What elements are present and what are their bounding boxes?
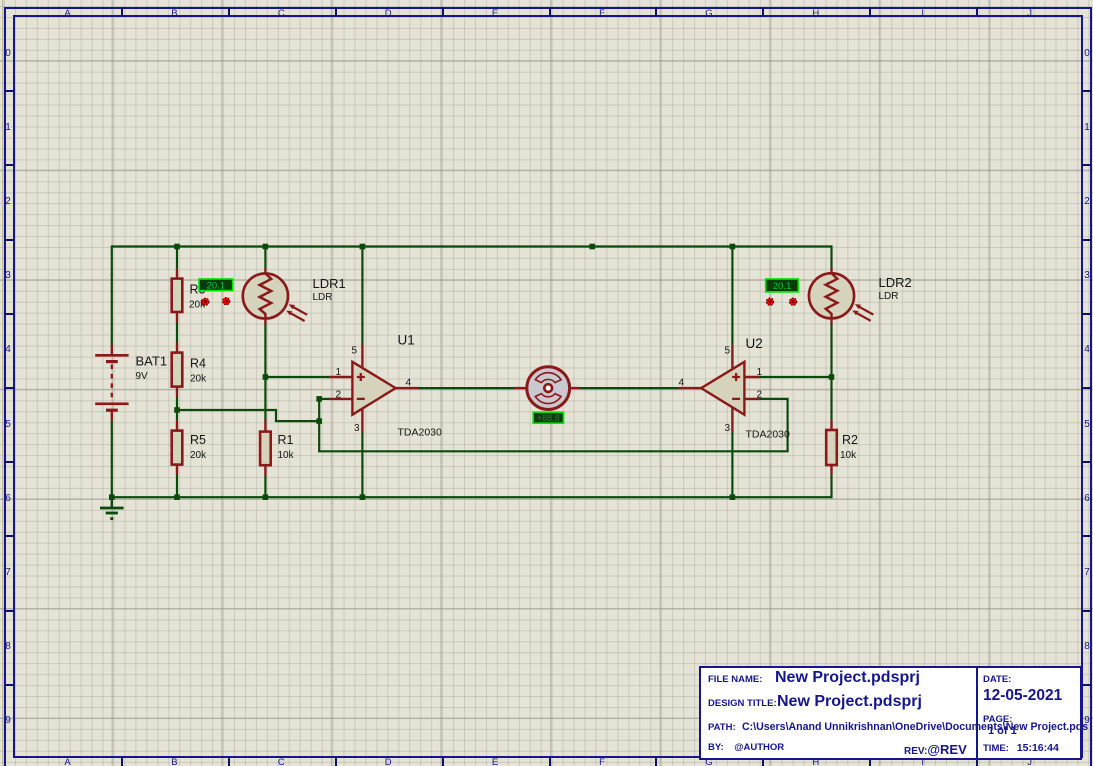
svg-text:TDA2030: TDA2030	[398, 427, 443, 439]
svg-text:LDR: LDR	[313, 292, 333, 303]
ruler letter I top	[913, 8, 933, 19]
svg-text:LDR2: LDR2	[879, 275, 912, 290]
ruler letter E bottom	[485, 757, 505, 766]
ruler number 8 left	[3, 641, 13, 652]
ruler letter D bottom	[378, 757, 398, 766]
wire top power rail	[112, 245, 832, 247]
label U2 ref	[746, 336, 763, 351]
ruler tick bottom 8	[869, 756, 871, 766]
ruler tick top 3	[335, 7, 337, 16]
ground symbol	[100, 497, 124, 518]
label R4 value	[190, 374, 207, 385]
label R1 ref	[278, 433, 294, 447]
ruler number 6 right	[1082, 493, 1092, 504]
svg-text:10k: 10k	[278, 450, 295, 461]
node feedback left	[316, 418, 322, 424]
title block divider	[976, 668, 978, 758]
svg-text:LDR1: LDR1	[313, 276, 346, 291]
wire feedback bus	[318, 450, 789, 452]
op-amp U2 pin5 stub	[731, 345, 733, 368]
ruler tick top 2	[228, 7, 230, 16]
label U1 pin5	[351, 346, 357, 357]
ruler number 0 left	[3, 48, 13, 59]
label U2 pin3	[724, 423, 730, 434]
ruler letter H bottom	[806, 757, 826, 766]
wire battery bottom	[111, 420, 113, 498]
resistor R5 pins	[176, 420, 178, 475]
svg-text:3: 3	[724, 423, 730, 434]
ruler tick top 8	[869, 7, 871, 16]
file name row	[708, 674, 762, 685]
ruler tick left 2	[4, 164, 14, 166]
photoresistor LDR2	[809, 273, 873, 321]
label LDR2 ref	[879, 275, 912, 290]
frame inner top line	[13, 15, 1083, 17]
label U2 pin2	[757, 390, 763, 401]
op-amp U2 pin2 stub	[742, 398, 760, 400]
button LDR2 decrease	[766, 298, 773, 305]
label LDR1 ref	[313, 276, 346, 291]
ruler number 8 right	[1082, 641, 1092, 652]
label U1 pin1	[335, 367, 341, 378]
svg-text:TDA2030: TDA2030	[746, 429, 791, 441]
wire motor to U2 output	[579, 387, 679, 389]
ruler number 7 right	[1082, 567, 1092, 578]
ruler tick top 6	[655, 7, 657, 16]
button LDR1 increase	[223, 298, 230, 305]
wire R5 bottom	[176, 474, 178, 498]
node ground U1 pin3	[360, 494, 366, 500]
op-amp U2 pin1 stub	[742, 376, 760, 378]
resistor R2 pins	[830, 420, 832, 475]
svg-text:R1: R1	[278, 433, 294, 447]
date cell	[983, 674, 1011, 685]
node ground U2 pin3	[730, 494, 736, 500]
ruler tick right 5	[1081, 387, 1091, 389]
ruler tick bottom 5	[549, 756, 551, 766]
label U2 part	[746, 429, 791, 441]
ruler number 4 right	[1082, 344, 1092, 355]
wire U2 pin1 net	[760, 376, 832, 378]
ruler letter I bottom	[913, 757, 933, 766]
wire LDR2 to R2	[830, 324, 832, 420]
op-amp U1 pin2 stub	[329, 398, 353, 400]
node R4 R5 divider	[174, 407, 180, 413]
drawing frame	[0, 0, 1093, 1]
ruler letter F bottom	[592, 757, 612, 766]
wire U1 pin2 net	[319, 398, 329, 400]
op-amp U2 pin4 stub	[679, 387, 710, 389]
ruler tick right 8	[1081, 610, 1091, 612]
wire output U1 to motor	[418, 387, 514, 389]
motor pins	[514, 387, 580, 389]
node top rail U2 pin5	[730, 244, 736, 250]
svg-text:5: 5	[724, 346, 730, 357]
label R5 value	[190, 450, 207, 461]
ruler letter J top	[1020, 8, 1040, 19]
ruler number 1 left	[3, 122, 13, 133]
ruler tick left 7	[4, 535, 14, 537]
frame inner bottom line	[13, 756, 1083, 758]
ruler letter F top	[592, 8, 612, 19]
ruler tick bottom 6	[655, 756, 657, 766]
design title row	[708, 698, 777, 709]
photoresistor LDR1	[243, 273, 307, 321]
frame inner right line	[1081, 15, 1083, 758]
label BAT1 ref	[136, 354, 168, 369]
label R1 value	[278, 450, 295, 461]
ruler number 9 left	[3, 715, 13, 726]
ruler tick right 7	[1081, 535, 1091, 537]
ruler number 9 right	[1082, 715, 1092, 726]
LDR1 pins	[264, 268, 266, 324]
svg-text:4: 4	[406, 378, 412, 389]
ruler tick left 5	[4, 387, 14, 389]
ruler tick bottom 7	[762, 756, 764, 766]
label U1 pin2	[335, 390, 341, 401]
resistor R2	[826, 430, 837, 465]
ruler number 0 right	[1082, 48, 1092, 59]
node top rail mid	[589, 244, 595, 250]
ruler tick right 1	[1081, 90, 1091, 92]
ruler tick left 8	[4, 610, 14, 612]
wire U2 pin2 net	[760, 399, 788, 451]
wire U2 pin3 drop	[731, 432, 733, 498]
ruler tick top 4	[442, 7, 444, 16]
svg-text:+88.8: +88.8	[537, 413, 560, 423]
wire R2 bottom riser	[830, 475, 832, 499]
ruler letter C bottom	[271, 757, 291, 766]
wire feedback vertical left	[318, 398, 320, 452]
motor M1	[527, 367, 570, 410]
label U1 pin3	[354, 423, 360, 434]
resistor R4	[172, 353, 183, 387]
svg-text:U1: U1	[398, 333, 415, 348]
ruler tick top 5	[549, 7, 551, 16]
ruler tick right 4	[1081, 313, 1091, 315]
title block	[699, 666, 1082, 760]
label BAT1 value	[136, 371, 149, 382]
ruler tick top 7	[762, 7, 764, 16]
ruler letter J bottom	[1020, 757, 1040, 766]
label R2 ref	[842, 433, 858, 447]
svg-text:R5: R5	[190, 433, 206, 447]
ruler tick bottom 2	[228, 756, 230, 766]
label R5 ref	[190, 433, 206, 447]
rev	[904, 742, 967, 757]
op-amp U2 pin3 stub	[731, 408, 733, 432]
wire R3-R4 link	[176, 322, 178, 343]
page cell	[983, 714, 1012, 725]
display LDR1 lux readout	[199, 279, 233, 291]
ruler tick right 3	[1081, 239, 1091, 241]
svg-text:2: 2	[335, 390, 341, 401]
ruler tick top 9	[976, 7, 978, 16]
label LDR2 value	[879, 291, 899, 302]
op-amp U1	[352, 362, 395, 415]
op-amp U2	[701, 362, 744, 415]
node top rail U1 pin5	[360, 244, 366, 250]
svg-text:20k: 20k	[190, 450, 207, 461]
svg-text:4: 4	[678, 378, 684, 389]
ruler tick right 2	[1081, 164, 1091, 166]
ruler letter E top	[485, 8, 505, 19]
wire LDR1 top	[264, 245, 266, 268]
ruler letter C top	[271, 8, 291, 19]
resistor R4 pins	[176, 342, 178, 397]
node U1 pin2 join	[316, 396, 322, 402]
label R2 value	[840, 450, 857, 461]
resistor R3	[172, 279, 183, 312]
ruler tick bottom 1	[121, 756, 123, 766]
ruler number 2 left	[3, 196, 13, 207]
label U1 pin4	[406, 378, 412, 389]
svg-text:20k: 20k	[190, 374, 207, 385]
label U1 part	[398, 427, 443, 439]
LDR2 pins	[830, 268, 832, 324]
ruler tick left 9	[4, 684, 14, 686]
resistor R3 pins	[176, 269, 178, 323]
frame outer right line	[1090, 7, 1092, 766]
wire divider to U1 pin2	[177, 410, 319, 421]
resistor R5	[172, 431, 183, 465]
wire R1 bottom	[264, 475, 266, 498]
op-amp U1 pin5 stub	[361, 345, 363, 368]
op-amp U1 pin3 stub	[361, 408, 363, 432]
svg-text:BAT1: BAT1	[136, 354, 168, 369]
ruler tick left 1	[4, 90, 14, 92]
button LDR1 decrease	[202, 298, 209, 305]
wire LDR1 to R1	[264, 324, 266, 420]
node ground battery	[109, 494, 115, 500]
ruler letter A top	[58, 8, 78, 19]
svg-text:5: 5	[351, 346, 357, 357]
ruler number 7 left	[3, 567, 13, 578]
svg-text:2: 2	[757, 390, 763, 401]
wire ground rail	[112, 496, 832, 498]
ruler letter D top	[378, 8, 398, 19]
svg-text:10k: 10k	[840, 450, 857, 461]
ruler tick bottom 9	[976, 756, 978, 766]
node top rail R3	[174, 244, 180, 250]
wire R3 column top	[176, 245, 178, 268]
ruler letter A bottom	[58, 757, 78, 766]
ruler letter B top	[164, 8, 184, 19]
svg-text:20.1: 20.1	[207, 280, 226, 291]
svg-text:20.1: 20.1	[773, 281, 792, 292]
svg-text:3: 3	[354, 423, 360, 434]
ruler tick right 9	[1081, 684, 1091, 686]
ruler number 5 right	[1082, 419, 1092, 430]
node ground R1	[263, 494, 269, 500]
label LDR1 value	[313, 292, 333, 303]
ruler letter G top	[699, 8, 719, 19]
label U2 pin1	[757, 367, 763, 378]
frame outer top line	[4, 7, 1092, 9]
ruler number 4 left	[3, 344, 13, 355]
wire U1 pin1 net	[265, 376, 329, 378]
display LDR2 lux readout	[766, 279, 799, 292]
op-amp U1 pin1 stub	[329, 376, 353, 378]
node LDR2 R2 tap	[829, 374, 835, 380]
label R3 value	[189, 300, 206, 311]
ruler number 5 left	[3, 419, 13, 430]
svg-text:1: 1	[757, 367, 763, 378]
label U2 pin5	[724, 346, 730, 357]
by row	[708, 742, 784, 753]
svg-text:U2: U2	[746, 336, 763, 351]
ruler tick left 4	[4, 313, 14, 315]
ruler tick left 3	[4, 239, 14, 241]
ruler number 2 right	[1082, 196, 1092, 207]
ruler tick left 6	[4, 461, 14, 463]
path row	[708, 722, 736, 733]
battery BAT1	[95, 345, 128, 421]
node LDR1 R1 tap	[263, 374, 269, 380]
ruler tick right 6	[1081, 461, 1091, 463]
op-amp U1 pin4 stub	[394, 387, 419, 389]
label U2 pin4	[678, 378, 684, 389]
display motor speed readout	[533, 412, 563, 423]
node ground R5	[174, 494, 180, 500]
label R3 ref	[190, 283, 206, 297]
button LDR2 increase	[789, 298, 796, 305]
label R4 ref	[190, 357, 206, 371]
ruler number 6 left	[3, 493, 13, 504]
wire LDR2 top drop	[830, 245, 832, 268]
ruler tick bottom 3	[335, 756, 337, 766]
frame outer left line	[4, 7, 6, 766]
ruler letter B bottom	[164, 757, 184, 766]
svg-text:9V: 9V	[136, 371, 149, 382]
wire U2 pin5 riser	[731, 245, 733, 345]
ruler tick bottom 4	[442, 756, 444, 766]
ruler number 1 right	[1082, 122, 1092, 133]
ruler tick top 1	[121, 7, 123, 16]
ruler number 3 right	[1082, 270, 1092, 281]
resistor R1 pins	[264, 420, 266, 475]
ruler letter G bottom	[699, 757, 719, 766]
ruler number 3 left	[3, 270, 13, 281]
svg-text:LDR: LDR	[879, 291, 899, 302]
svg-text:R4: R4	[190, 357, 206, 371]
wire battery top	[111, 245, 113, 345]
svg-text:R2: R2	[842, 433, 858, 447]
node top rail LDR1	[263, 244, 269, 250]
wire U1 pin3 drop	[361, 432, 363, 498]
wire R4-R5 link	[176, 396, 178, 420]
frame inner left line	[13, 15, 15, 758]
ruler letter H top	[806, 8, 826, 19]
svg-text:1: 1	[335, 367, 341, 378]
label U1 ref	[398, 333, 415, 348]
time cell	[983, 742, 1059, 754]
wire U1 pin5 riser	[361, 245, 363, 345]
resistor R1	[260, 432, 271, 466]
